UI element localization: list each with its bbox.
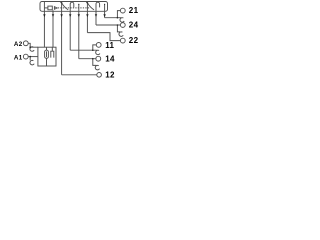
terminal 24 lower point <box>119 32 123 37</box>
terminal 14 lower point <box>95 65 99 70</box>
svg-text:21: 21 <box>129 6 139 15</box>
wire pin5 to terminal 14 <box>79 58 96 60</box>
pin3 plug arrow <box>60 14 62 17</box>
wire stub A1 <box>29 57 31 61</box>
contact S2 NO dot <box>104 4 105 5</box>
pin7 plug arrow <box>95 14 97 17</box>
contact blade S2 <box>87 3 94 10</box>
svg-text:22: 22 <box>129 36 139 45</box>
wire pin7 <box>95 4 97 25</box>
wire A2 jog <box>28 43 30 49</box>
terminal 11 circle <box>96 43 101 48</box>
contact S1 pivot <box>61 2 62 3</box>
wire pin6 <box>86 3 88 33</box>
wire A2 to box <box>30 46 38 48</box>
contact S2 pivot tick <box>86 2 87 4</box>
contact blade S1 <box>62 3 69 10</box>
wire pin4 to terminal 11 <box>70 49 97 51</box>
junction A1 <box>29 56 31 58</box>
wire pin6 to terminal 22 <box>87 33 120 41</box>
wire pin5 <box>78 5 80 59</box>
svg-text:12: 12 <box>105 71 115 80</box>
mechanical link dashed line <box>58 7 90 9</box>
wire pin4 <box>69 4 71 50</box>
input circuit box <box>38 47 56 66</box>
junction 11 <box>92 49 94 51</box>
coil K1 <box>48 6 52 10</box>
wire stub 11 <box>93 45 97 50</box>
terminal A2 lower point <box>30 47 34 51</box>
terminal A1 lower point <box>30 60 34 64</box>
wire coil stub <box>44 7 48 9</box>
terminal A2 circle <box>23 41 28 46</box>
terminal 21 lower point <box>120 18 124 22</box>
contact S2 NC hook <box>96 2 100 7</box>
svg-text:A2: A2 <box>14 41 23 48</box>
pin1 plug arrow <box>43 14 45 17</box>
terminal 12 circle <box>97 73 102 78</box>
wire pin7 to terminal 24 <box>96 24 120 26</box>
junction 21 <box>117 17 119 19</box>
indicator lead top <box>46 47 48 50</box>
terminal 22 circle <box>120 38 125 43</box>
pin6 plug arrow <box>86 14 88 17</box>
terminal 11 lower point <box>96 50 100 54</box>
pin2 plug arrow <box>52 14 54 17</box>
actuator arrow <box>54 7 57 10</box>
contact S2 pivot <box>87 2 88 3</box>
pin5 plug arrow <box>78 14 80 17</box>
wire stub 14 <box>93 59 97 66</box>
terminal 21 circle <box>120 8 125 13</box>
suppressor body <box>51 51 54 57</box>
wire pin3 <box>61 3 63 75</box>
junction 14 <box>92 58 94 60</box>
terminal 14 circle <box>96 56 101 61</box>
pin4 plug arrow <box>69 14 71 17</box>
wire pin3 to terminal 12 <box>62 74 97 76</box>
wire pin1 coil lead <box>43 2 45 48</box>
svg-text:14: 14 <box>105 54 115 63</box>
wire pin8 to terminal 21 <box>105 17 122 19</box>
pin8 plug arrow <box>103 14 105 17</box>
terminal A1 circle <box>23 54 28 59</box>
terminal 24 circle <box>120 23 125 28</box>
wire pin8 <box>104 5 106 18</box>
relay K1 outline box <box>40 2 108 12</box>
junction A2 <box>29 46 31 48</box>
wire pin2 coil lead <box>52 10 54 47</box>
svg-text:A1: A1 <box>14 54 23 61</box>
contact S1 pivot tick <box>60 2 61 4</box>
wire A1 to input box <box>28 56 38 58</box>
wire stub 24 <box>117 25 120 32</box>
wire stub 21 <box>117 11 120 18</box>
indicator inner line <box>46 51 48 57</box>
suppressor lead <box>51 47 53 51</box>
svg-text:11: 11 <box>105 41 114 50</box>
indicator body <box>45 50 49 58</box>
contact S1 NO dot <box>78 4 79 5</box>
indicator lead bottom <box>46 58 48 66</box>
contact S1 NC hook <box>70 2 74 7</box>
junction 24 <box>117 24 119 26</box>
svg-text:24: 24 <box>129 21 139 30</box>
